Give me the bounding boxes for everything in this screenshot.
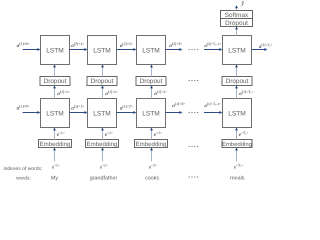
wire a[2]<2> <box>117 48 137 51</box>
LSTM layer2 t2 box <box>88 36 117 65</box>
svg-text:e<Tₓ>: e<Tₓ> <box>239 131 249 138</box>
svg-text:LSTM: LSTM <box>228 110 246 117</box>
wire a[1]<2> h <box>117 111 137 114</box>
svg-text:x<Tₓ>: x<Tₓ> <box>233 164 244 171</box>
svg-text:a[1]<0>: a[1]<0> <box>17 104 30 111</box>
ellipsis dropout row <box>189 80 199 81</box>
label a[2]<Tx-1> <box>204 42 221 49</box>
svg-text:e<3>: e<3> <box>154 131 162 138</box>
svg-text:Embedding: Embedding <box>222 141 252 148</box>
LSTM layer1 t3 box <box>137 99 166 128</box>
wire Dropout to LSTM2 t1 <box>53 65 56 77</box>
Dropout mid t3 box <box>136 77 166 86</box>
svg-text:a[2]<2>: a[2]<2> <box>120 42 133 49</box>
svg-text:Dropout: Dropout <box>226 78 249 85</box>
svg-text:cooks: cooks <box>145 175 159 181</box>
wire a[1]<0> into LSTM1 t1 <box>23 111 41 114</box>
Dropout mid t1 box <box>40 77 70 86</box>
caption words <box>16 175 31 181</box>
label a[2]<3> <box>169 42 182 49</box>
Embedding t4 box <box>222 140 252 148</box>
wire LSTM1 to Dropout t3 <box>150 86 153 99</box>
svg-text:a[2]<1>: a[2]<1> <box>71 42 84 49</box>
label e t4 <box>239 131 249 138</box>
wire Embedding to LSTM1 t3 <box>150 128 153 140</box>
label a[1] v t2 <box>105 90 118 97</box>
svg-text:x<3>: x<3> <box>148 164 157 171</box>
label a[1]<2> h <box>120 104 133 111</box>
label e t3 <box>154 131 162 138</box>
label a[1] v t1 <box>57 90 70 97</box>
Dropout top box <box>221 19 253 27</box>
wire a[2]<Tx> out <box>252 48 268 51</box>
ellipsis words row <box>189 176 199 177</box>
wire a[2]<1> <box>70 48 88 51</box>
svg-text:words:: words: <box>16 175 31 181</box>
word meals <box>230 175 245 181</box>
svg-text:grandfather: grandfather <box>90 175 118 181</box>
label e t1 <box>57 131 65 138</box>
label a[1]<0> <box>17 104 30 111</box>
label a[2]<0> <box>17 42 30 49</box>
label yhat <box>240 0 244 7</box>
label x t4 <box>233 164 244 171</box>
label e t2 <box>105 131 113 138</box>
wire x to Embedding t3 <box>150 148 153 162</box>
svg-text:Dropout: Dropout <box>140 78 163 85</box>
ellipsis embedding row <box>189 146 199 147</box>
Softmax box <box>221 11 253 19</box>
svg-text:LSTM: LSTM <box>93 47 111 54</box>
LSTM layer2 t4 box <box>223 36 252 65</box>
wire Embedding to LSTM1 t2 <box>101 128 104 140</box>
Embedding t2 box <box>86 140 119 148</box>
LSTM layer2 t3 box <box>137 36 166 65</box>
wire Dropout to LSTM2 t3 <box>150 65 153 77</box>
svg-text:ŷ: ŷ <box>240 0 244 7</box>
wire Dropout to LSTM2 t4 <box>235 65 238 77</box>
word cooks <box>145 175 159 181</box>
label x t2 <box>99 164 108 171</box>
label a[2]<1> <box>71 42 84 49</box>
svg-text:LSTM: LSTM <box>93 110 111 117</box>
ellipsis layer2 row <box>189 49 199 50</box>
svg-text:a[1]<3>: a[1]<3> <box>172 102 185 109</box>
svg-text:LSTM: LSTM <box>46 47 64 54</box>
svg-text:meals: meals <box>230 175 245 181</box>
svg-text:a[1]<3>: a[1]<3> <box>154 90 167 97</box>
LSTM layer2 t1 box <box>41 36 70 65</box>
Embedding t3 box <box>135 140 168 148</box>
ellipsis layer1 row <box>189 112 199 113</box>
svg-text:Embedding: Embedding <box>87 141 118 148</box>
wire a[1]<1> h <box>70 111 88 114</box>
wire LSTM1 to Dropout t1 <box>53 86 56 99</box>
svg-text:Dropout: Dropout <box>91 78 114 85</box>
LSTM layer1 t2 box <box>88 99 117 128</box>
label a[1]<Tx-1> <box>204 102 221 109</box>
svg-text:Softmax: Softmax <box>225 12 249 19</box>
wire Softmax to yhat <box>235 5 238 10</box>
wire a[1]<Tx-1> into LSTM1 t4 <box>204 111 223 114</box>
wire a[1]<3> to ellipsis <box>166 111 183 114</box>
caption indexes of words <box>4 166 43 172</box>
label x t1 <box>51 164 60 171</box>
svg-text:a[1]<2>: a[1]<2> <box>120 104 133 111</box>
wire a[2]<3> to ellipsis <box>166 48 183 51</box>
svg-text:a[1]<Tₓ-1>: a[1]<Tₓ-1> <box>204 102 221 109</box>
label a[2]<Tx> <box>259 43 273 50</box>
wire Dropout to LSTM2 t2 <box>101 65 104 77</box>
label a[2]<2> <box>120 42 133 49</box>
LSTM layer1 t4 box <box>223 99 252 128</box>
wire x to Embedding t4 <box>235 148 238 162</box>
svg-text:LSTM: LSTM <box>142 47 160 54</box>
svg-text:a[1]<1>: a[1]<1> <box>57 90 70 97</box>
label a[1]<3> h <box>172 102 185 109</box>
svg-text:e<1>: e<1> <box>57 131 65 138</box>
svg-text:x<1>: x<1> <box>51 164 60 171</box>
svg-text:Embedding: Embedding <box>40 141 71 148</box>
wire Embedding to LSTM1 t4 <box>235 128 238 140</box>
svg-text:My: My <box>51 175 58 181</box>
label a[1] v t4 <box>239 90 253 97</box>
svg-text:a[1]<1>: a[1]<1> <box>71 104 84 111</box>
word My <box>51 175 58 181</box>
svg-text:LSTM: LSTM <box>46 110 64 117</box>
wire a[2]<Tx-1> into LSTM2 t4 <box>204 48 223 51</box>
wire x to Embedding t2 <box>101 148 104 162</box>
wire LSTM1 to Dropout t4 <box>235 86 238 99</box>
Dropout mid t4 box <box>222 77 252 86</box>
wire a[2]<0> into LSTM2 t1 <box>23 48 41 51</box>
svg-text:a[1]<2>: a[1]<2> <box>105 90 118 97</box>
label a[1]<1> h <box>71 104 84 111</box>
wire LSTM1 to Dropout t2 <box>101 86 104 99</box>
Embedding t1 box <box>39 140 72 148</box>
wire x to Embedding t1 <box>53 148 56 162</box>
svg-text:a[2]<Tₓ-1>: a[2]<Tₓ-1> <box>204 42 221 49</box>
svg-text:indexes of words:: indexes of words: <box>4 166 43 172</box>
svg-text:a[1]<Tₓ>: a[1]<Tₓ> <box>239 90 253 97</box>
Dropout mid t2 box <box>87 77 117 86</box>
word grandfather <box>90 175 118 181</box>
svg-text:e<2>: e<2> <box>105 131 113 138</box>
svg-text:x<2>: x<2> <box>99 164 108 171</box>
wire Embedding to LSTM1 t1 <box>53 128 56 140</box>
svg-text:a[2]<0>: a[2]<0> <box>17 42 30 49</box>
wire LSTM2 to Dropout top <box>235 27 238 36</box>
svg-text:LSTM: LSTM <box>228 47 246 54</box>
svg-text:Dropout: Dropout <box>44 78 67 85</box>
label x t3 <box>148 164 157 171</box>
svg-text:a[2]<3>: a[2]<3> <box>169 42 182 49</box>
svg-text:Dropout: Dropout <box>225 20 248 27</box>
label a[1] v t3 <box>154 90 167 97</box>
LSTM layer1 t1 box <box>41 99 70 128</box>
svg-text:LSTM: LSTM <box>142 110 160 117</box>
svg-text:Embedding: Embedding <box>136 141 167 148</box>
